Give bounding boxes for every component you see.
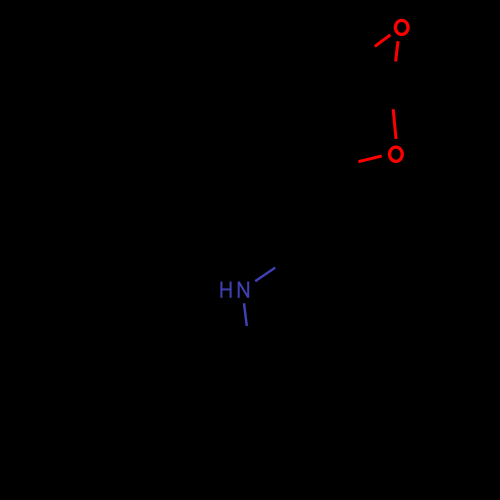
atom O1 (epoxide oxygen label): [395, 20, 408, 34]
letter H of HN: [220, 282, 222, 298]
atom O4 (ether oxygen label): [390, 147, 403, 161]
bond C3-O4 (to ether oxygen, red half): [393, 109, 396, 139]
atom N7 (HN amine label): [220, 282, 248, 298]
bond O1-C3 (epoxide, red half): [396, 41, 398, 61]
bond O4-C5 (ether to carbon, red half): [358, 156, 381, 162]
bond N7-C8 (amine N to methyl carbon, blue half): [244, 303, 247, 326]
bond C6-N7 (carbon to amine N, blue half): [255, 268, 275, 282]
bond O1-C2 (epoxide, red half): [375, 35, 391, 47]
letter N of HN: [238, 282, 240, 298]
